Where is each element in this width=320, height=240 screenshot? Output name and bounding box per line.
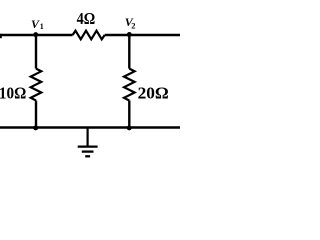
svg-text:10Ω: 10Ω (0, 84, 26, 103)
junction dot V2 branch at ground rail (127, 125, 132, 130)
wire: top segment from 4-ohm resistor to right edge (105, 34, 180, 36)
svg-text:V: V (31, 17, 40, 31)
wire: V2 vertical upper segment (128, 35, 130, 69)
ground symbol bar 2 (82, 150, 94, 152)
svg-text:20Ω: 20Ω (138, 84, 169, 103)
ground symbol bar 1 (78, 145, 98, 147)
wire: V2 vertical lower segment (128, 101, 130, 128)
wire: V1 vertical lower segment (35, 101, 37, 128)
wire: top segment from left edge to 4-ohm resistor (0, 34, 73, 36)
node V2 junction dot (top) (127, 32, 132, 37)
resistor R 20ohm zigzag (124, 69, 135, 101)
resistor R 10ohm zigzag (31, 69, 42, 101)
junction dot V1 branch at ground rail (33, 125, 38, 130)
svg-text:4Ω: 4Ω (77, 9, 96, 28)
wire: left edge entry stub (0, 34, 2, 38)
ground symbol bar 3 (85, 155, 90, 157)
resistor R 4ohm zigzag (73, 31, 105, 40)
node V1 junction dot (top) (33, 32, 38, 37)
wire: bottom ground rail (0, 126, 180, 129)
svg-text:2: 2 (131, 21, 135, 31)
ground symbol stem (86, 128, 88, 147)
wire: V1 vertical upper segment (35, 35, 37, 69)
svg-text:1: 1 (40, 22, 44, 31)
